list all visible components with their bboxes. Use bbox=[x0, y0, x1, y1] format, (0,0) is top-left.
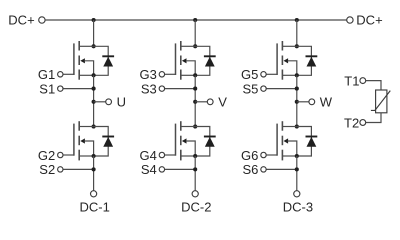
node DC+ junction leg 1 bbox=[92, 18, 96, 22]
diode D5 (freewheel, across Q5) bbox=[297, 46, 318, 75]
svg-text:W: W bbox=[320, 95, 333, 110]
wire S6 lead bbox=[266, 168, 296, 170]
wire source to DC-3 bbox=[296, 156, 298, 191]
terminal U bbox=[106, 99, 112, 105]
wire gate lead G5 bbox=[266, 73, 277, 75]
transistor Q2 (low-side MOSFET G2/S2) bbox=[74, 121, 94, 160]
svg-text:T2: T2 bbox=[344, 115, 359, 130]
svg-text:S5: S5 bbox=[242, 81, 258, 96]
svg-text:G1: G1 bbox=[38, 67, 55, 82]
node source Q3 bbox=[193, 73, 197, 77]
terminal DC+ right bbox=[347, 17, 353, 23]
terminal T1 bbox=[360, 78, 366, 84]
svg-text:T1: T1 bbox=[344, 73, 359, 88]
node S1 junction bbox=[92, 87, 96, 91]
wire DC+ bus rail bbox=[45, 19, 347, 21]
node source Q5 bbox=[295, 73, 299, 77]
terminal S6 bbox=[261, 167, 266, 172]
svg-text:S4: S4 bbox=[141, 162, 157, 177]
node source Q6 bbox=[295, 154, 299, 158]
diode D3 (freewheel, across Q3) bbox=[195, 46, 216, 75]
transistor Q4 (low-side MOSFET G4/S4) bbox=[176, 121, 196, 160]
terminal S1 bbox=[58, 86, 63, 91]
terminal W bbox=[309, 99, 315, 105]
wire S3 lead bbox=[165, 88, 195, 90]
svg-text:DC-3: DC-3 bbox=[283, 200, 313, 215]
thermistor RT1 body bbox=[376, 90, 387, 113]
node DC+ junction leg 2 bbox=[193, 18, 197, 22]
thermistor RT1 diagonal bbox=[371, 91, 390, 111]
node source Q1 bbox=[92, 73, 96, 77]
svg-text:G5: G5 bbox=[241, 67, 258, 82]
terminal DC-3 bbox=[294, 191, 300, 197]
wire gate lead G3 bbox=[165, 73, 176, 75]
node S3 junction bbox=[193, 87, 197, 91]
node S6 junction bbox=[295, 167, 299, 171]
svg-text:S1: S1 bbox=[39, 81, 55, 96]
transistor Q6 (low-side MOSFET G6/S6) bbox=[277, 121, 297, 160]
terminal S5 bbox=[261, 86, 266, 91]
svg-text:G6: G6 bbox=[241, 148, 258, 163]
wire T2 lead bbox=[366, 113, 381, 123]
node drain Q6 bbox=[295, 124, 299, 128]
node S2 junction bbox=[92, 167, 96, 171]
wire S5 lead bbox=[266, 88, 296, 90]
terminal DC-1 bbox=[91, 191, 97, 197]
wire source to DC-1 bbox=[93, 156, 95, 191]
svg-text:U: U bbox=[117, 95, 126, 110]
svg-text:DC-2: DC-2 bbox=[181, 200, 211, 215]
diode D2 (freewheel, across Q2) bbox=[94, 127, 115, 157]
wire source bus U leg bbox=[93, 75, 95, 126]
wire T1 lead bbox=[366, 81, 381, 90]
terminal G5 bbox=[261, 72, 266, 77]
svg-text:DC+: DC+ bbox=[8, 13, 34, 28]
node DC+ junction leg 3 bbox=[295, 18, 299, 22]
wire U lead bbox=[94, 101, 106, 103]
terminal G1 bbox=[58, 72, 63, 77]
node U junction bbox=[92, 100, 96, 104]
terminal G3 bbox=[159, 72, 164, 77]
wire rail to Q1 drain bbox=[93, 20, 95, 46]
wire rail to Q3 drain bbox=[194, 20, 196, 46]
wire source bus V leg bbox=[194, 75, 196, 126]
diode D6 (freewheel, across Q6) bbox=[297, 127, 318, 157]
svg-text:DC+: DC+ bbox=[356, 13, 382, 28]
diode D4 (freewheel, across Q4) bbox=[195, 127, 216, 157]
wire gate lead G2 bbox=[63, 154, 74, 156]
wire source bus W leg bbox=[296, 75, 298, 126]
node source Q4 bbox=[193, 154, 197, 158]
svg-text:S3: S3 bbox=[141, 81, 157, 96]
node drain Q3 bbox=[193, 44, 197, 48]
terminal G6 bbox=[261, 152, 266, 157]
terminal V bbox=[207, 99, 213, 105]
node drain Q5 bbox=[295, 44, 299, 48]
wire gate lead G4 bbox=[165, 154, 176, 156]
transistor Q3 (high-side MOSFET G3/S3) bbox=[176, 41, 196, 80]
terminal S2 bbox=[58, 167, 63, 172]
terminal G4 bbox=[159, 152, 164, 157]
terminal T2 bbox=[360, 120, 366, 126]
node V junction bbox=[193, 100, 197, 104]
node W junction bbox=[295, 100, 299, 104]
wire rail to Q5 drain bbox=[296, 20, 298, 46]
terminal DC-2 bbox=[192, 191, 198, 197]
svg-text:S6: S6 bbox=[242, 162, 258, 177]
wire source to DC-2 bbox=[194, 156, 196, 191]
wire V lead bbox=[195, 101, 207, 103]
wire S4 lead bbox=[165, 168, 195, 170]
svg-text:G4: G4 bbox=[139, 148, 156, 163]
terminal S4 bbox=[159, 167, 164, 172]
svg-text:S2: S2 bbox=[39, 162, 55, 177]
node drain Q2 bbox=[92, 124, 96, 128]
svg-text:DC-1: DC-1 bbox=[80, 200, 110, 215]
transistor Q1 (high-side MOSFET G1/S1) bbox=[74, 41, 94, 80]
wire S2 lead bbox=[63, 168, 93, 170]
diode D1 (freewheel, across Q1) bbox=[94, 46, 115, 75]
svg-text:V: V bbox=[218, 95, 227, 110]
node source Q2 bbox=[92, 154, 96, 158]
wire S1 lead bbox=[63, 88, 93, 90]
node S5 junction bbox=[295, 87, 299, 91]
wire gate lead G6 bbox=[266, 154, 277, 156]
node S4 junction bbox=[193, 167, 197, 171]
wire W lead bbox=[297, 101, 309, 103]
terminal S3 bbox=[159, 86, 164, 91]
node drain Q4 bbox=[193, 124, 197, 128]
wire gate lead G1 bbox=[63, 73, 74, 75]
transistor Q5 (high-side MOSFET G5/S5) bbox=[277, 41, 297, 80]
terminal G2 bbox=[58, 152, 63, 157]
svg-text:G3: G3 bbox=[139, 67, 156, 82]
svg-text:G2: G2 bbox=[38, 148, 55, 163]
node drain Q1 bbox=[92, 44, 96, 48]
terminal DC+ left bbox=[39, 17, 45, 23]
